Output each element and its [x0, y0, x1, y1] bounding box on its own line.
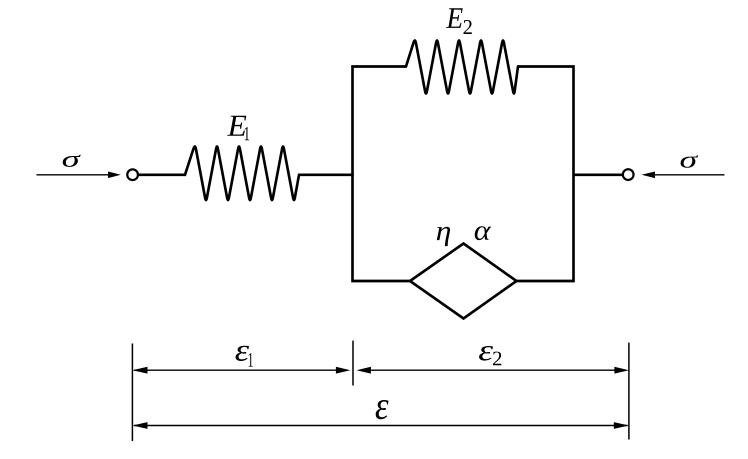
wire: left branch frame (top wire, left vertical, bottom wire to springpot) [353, 67, 411, 282]
dimension arrow epsilon1 [132, 367, 350, 374]
terminal right [623, 169, 634, 180]
label alpha [475, 226, 491, 240]
label sigma left [63, 155, 81, 167]
label E1 [227, 116, 246, 136]
wire: right vertical to right terminal [574, 173, 623, 176]
label E2 [446, 8, 463, 28]
wire: left terminal to spring E1 [138, 173, 186, 176]
extension line middle (tick) [352, 341, 354, 386]
terminal left [127, 169, 138, 180]
extension line left (tick) [131, 344, 133, 442]
label epsilon [376, 400, 389, 419]
spring E2 [406, 40, 518, 93]
label epsilon2 [479, 346, 493, 361]
label epsilon1 [236, 346, 250, 361]
dimension arrow epsilon2 [357, 367, 629, 374]
extension line right (tick) [628, 343, 630, 440]
wire: right branch frame (top wire, right vertical, bottom wire to springpot) [517, 67, 574, 282]
label eta [437, 227, 450, 246]
springpot element (fractional dashpot diamond) [410, 244, 517, 319]
label sigma right [681, 155, 699, 168]
spring E1 [185, 146, 299, 200]
dimension arrow epsilon (total strain) [132, 422, 629, 429]
wire: spring E1 to parallel node [298, 173, 354, 176]
stress arrow right (sigma input) [642, 172, 725, 179]
stress arrow left (sigma input) [37, 172, 121, 179]
